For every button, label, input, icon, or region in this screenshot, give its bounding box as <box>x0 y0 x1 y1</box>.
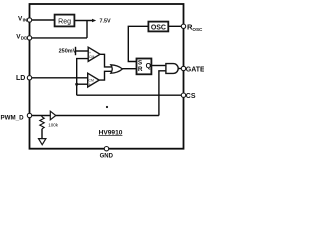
resistor 100k zigzag <box>40 117 44 129</box>
wire VIN to Reg <box>30 19 55 21</box>
wire resistor to ground <box>41 129 43 139</box>
wire 250mV reference to comparator <box>76 50 89 52</box>
regulator block Reg <box>55 15 75 27</box>
wire flip-flop Q to AND gate <box>151 65 166 67</box>
oscillator block OSC <box>148 22 168 32</box>
pin PWM_D <box>27 113 31 117</box>
arrowhead 7.5V <box>92 19 96 23</box>
junction node CS branch <box>75 83 78 86</box>
svg-text:100k: 100k <box>48 123 59 128</box>
wire LD <box>30 77 88 79</box>
svg-text:HV9910: HV9910 <box>99 129 123 136</box>
OR gate <box>111 65 123 73</box>
wire resistor top <box>41 116 43 118</box>
buffer on PWM_D <box>50 111 56 120</box>
svg-text:7.5V: 7.5V <box>100 18 111 24</box>
svg-text:Q: Q <box>146 63 152 70</box>
wire PWM riser to AND gate input <box>159 71 166 116</box>
svg-text:+: + <box>89 82 91 86</box>
wire CS <box>77 94 184 96</box>
svg-text:PWM_D: PWM_D <box>1 115 25 122</box>
pin VDD <box>27 36 31 40</box>
wire upper comparator output to OR gate <box>100 54 112 67</box>
svg-text:OSC: OSC <box>192 27 203 32</box>
comparator CM1 upper <box>88 47 100 61</box>
svg-text:Reg: Reg <box>58 18 71 25</box>
svg-text:CS: CS <box>186 93 196 100</box>
svg-text:R: R <box>138 66 143 73</box>
wire CS branch to lower comparator <box>77 83 88 85</box>
pin GATE <box>181 66 185 70</box>
comparator CM2 lower <box>88 73 100 87</box>
svg-text:CM: CM <box>89 55 94 59</box>
AND gate <box>166 64 178 74</box>
250mV reference bar <box>75 47 77 55</box>
svg-text:LD: LD <box>16 75 25 82</box>
wire PWM_D <box>30 115 51 117</box>
wire lower comparator output to OR gate <box>99 71 112 80</box>
IC boundary box <box>30 4 184 149</box>
stray dot <box>106 106 108 108</box>
svg-text:250mV: 250mV <box>59 49 77 55</box>
wire OSC to flip-flop S input <box>128 26 148 61</box>
wire VDD riser to 7.5V line <box>86 21 88 38</box>
pin CS <box>181 93 185 97</box>
pin VIN <box>27 18 31 22</box>
wire OR gate to flip-flop R input <box>122 68 136 70</box>
svg-text:GATE: GATE <box>186 67 204 74</box>
pin ROSC <box>181 24 185 28</box>
wire AND output to GATE pin <box>178 68 181 70</box>
wire VDD <box>30 37 88 39</box>
svg-text:DD: DD <box>21 36 28 41</box>
pin LD <box>27 76 31 80</box>
svg-text:GND: GND <box>100 153 114 159</box>
svg-text:OSC: OSC <box>151 24 166 31</box>
SR flip-flop U1 <box>137 59 152 75</box>
pin GND <box>104 147 108 151</box>
svg-text:IN: IN <box>23 18 28 23</box>
wire CS riser to comparators <box>77 59 89 96</box>
ground symbol <box>39 139 46 145</box>
wire Reg output 7.5V <box>74 20 93 22</box>
wire OSC to ROSC pin <box>168 25 183 27</box>
wire buffer output to AND riser <box>56 115 159 117</box>
